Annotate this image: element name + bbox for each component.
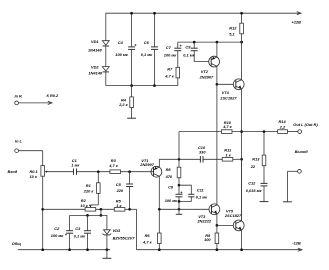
svg-text:100 мк: 100 мк xyxy=(165,198,178,203)
svg-text:R13: R13 xyxy=(252,157,260,162)
svg-text:0,1 мк: 0,1 мк xyxy=(196,194,208,199)
svg-text:10 к *: 10 к * xyxy=(80,203,90,208)
svg-text:R6: R6 xyxy=(145,233,151,238)
svg-text:220: 220 xyxy=(116,188,124,193)
svg-text:0,1 мк: 0,1 мк xyxy=(74,234,86,239)
svg-text:4,7 к: 4,7 к xyxy=(108,163,118,168)
svg-text:0,1 мк: 0,1 мк xyxy=(141,52,153,57)
svg-text:C9: C9 xyxy=(185,45,191,50)
svg-text:2SC1827: 2SC1827 xyxy=(224,213,242,218)
svg-text:-12В: -12В xyxy=(292,240,301,245)
svg-text:100 мк: 100 мк xyxy=(51,233,64,238)
svg-text:470: 470 xyxy=(165,174,173,179)
svg-text:In L: In L xyxy=(15,138,23,143)
svg-text:4,7 к: 4,7 к xyxy=(164,74,174,79)
svg-text:VD2: VD2 xyxy=(91,64,99,69)
svg-text:R8: R8 xyxy=(166,167,172,172)
svg-text:VT4: VT4 xyxy=(222,90,230,95)
svg-text:2,2: 2,2 xyxy=(279,125,286,130)
svg-text:К R0.2: К R0.2 xyxy=(47,93,60,98)
svg-text:C7: C7 xyxy=(166,45,172,50)
svg-text:10 к: 10 к xyxy=(30,174,38,179)
svg-text:1 мк: 1 мк xyxy=(71,163,80,168)
svg-text:1N4148: 1N4148 xyxy=(88,47,102,52)
svg-text:2N2907: 2N2907 xyxy=(139,162,154,167)
svg-text:100 мк: 100 мк xyxy=(164,53,177,58)
svg-text:5,1: 5,1 xyxy=(229,32,234,37)
svg-text:VT2: VT2 xyxy=(201,69,209,74)
svg-text:+12В: +12В xyxy=(292,20,302,25)
svg-text:0,1 мк: 0,1 мк xyxy=(183,53,195,58)
svg-text:C12: C12 xyxy=(248,181,256,186)
svg-text:Общ: Общ xyxy=(12,241,21,246)
svg-text:2,2 к: 2,2 к xyxy=(118,102,128,107)
svg-text:220 к: 220 к xyxy=(83,188,95,193)
svg-text:C5: C5 xyxy=(116,182,122,187)
svg-text:C2: C2 xyxy=(54,226,60,231)
svg-text:C6: C6 xyxy=(144,40,150,45)
svg-text:C3: C3 xyxy=(75,226,81,231)
svg-text:C8: C8 xyxy=(168,185,174,190)
svg-text:C11: C11 xyxy=(197,188,204,193)
svg-text:VD1: VD1 xyxy=(91,39,99,44)
svg-text:100: 100 xyxy=(204,237,211,242)
svg-text:In R: In R xyxy=(15,94,23,99)
svg-text:R14: R14 xyxy=(279,119,287,124)
svg-text:C4: C4 xyxy=(118,40,124,45)
svg-text:Выход: Выход xyxy=(295,149,309,154)
svg-text:VD3: VD3 xyxy=(113,228,121,233)
svg-text:2N2222: 2N2222 xyxy=(196,218,211,223)
svg-text:R12: R12 xyxy=(229,26,237,31)
svg-text:330: 330 xyxy=(199,150,206,155)
svg-text:BZV55C2V7: BZV55C2V7 xyxy=(113,236,136,241)
svg-text:100 мк: 100 мк xyxy=(115,52,128,57)
svg-text:Вход: Вход xyxy=(8,169,18,174)
svg-text:22: 22 xyxy=(250,164,256,169)
svg-text:2N2907: 2N2907 xyxy=(199,75,214,80)
svg-text:4,7 к: 4,7 к xyxy=(142,240,152,245)
svg-text:0,033 мк: 0,033 мк xyxy=(246,188,263,193)
svg-text:R7: R7 xyxy=(167,66,173,71)
svg-text:2SC1827: 2SC1827 xyxy=(219,96,237,101)
svg-text:4,7 к: 4,7 к xyxy=(222,124,232,129)
svg-text:Out L (Out R): Out L (Out R) xyxy=(293,122,318,127)
svg-text:1N4148: 1N4148 xyxy=(88,71,102,76)
